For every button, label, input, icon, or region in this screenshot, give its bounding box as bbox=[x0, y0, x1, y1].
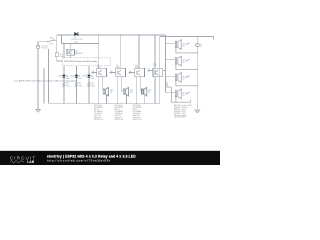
svg-text:JD-VCC 5V: JD-VCC 5V bbox=[94, 119, 104, 121]
transistor Q5 emitter wire bbox=[154, 77, 156, 103]
logo wave bbox=[10, 161, 24, 163]
wire gnd column b bbox=[48, 49, 50, 104]
footer bar bbox=[0, 151, 220, 165]
wire drop Q4 bbox=[138, 35, 140, 68]
transistor Q5 base wire bbox=[148, 70, 153, 72]
transistor Q3 base wire bbox=[110, 72, 116, 74]
wire battery top stub bbox=[38, 42, 47, 45]
ground G1 bbox=[36, 110, 40, 113]
transistor Q4 emitter wire bbox=[136, 77, 138, 103]
resistor R2 bbox=[75, 82, 78, 87]
relay RLY3 input wire bbox=[166, 75, 176, 77]
svg-text:ESP32 3.3V GPIO pin to control: ESP32 3.3V GPIO pin to control LED and r… bbox=[64, 60, 98, 63]
svg-text:LAB: LAB bbox=[27, 160, 34, 164]
wire bottom rail bbox=[49, 102, 160, 104]
diode D5 bbox=[74, 32, 78, 36]
svg-text:1k: 1k bbox=[148, 71, 150, 73]
svg-text:red: red bbox=[91, 77, 94, 80]
voltage source V2 stub bbox=[196, 37, 198, 44]
relay RLY3 bbox=[175, 72, 197, 86]
relay RLY4 bbox=[167, 82, 190, 103]
transistor Q2 bbox=[97, 68, 107, 77]
svg-text:Power: Power bbox=[42, 47, 48, 50]
transistor Q5 collector wire bbox=[163, 70, 166, 72]
voltage source V2 bbox=[196, 43, 200, 47]
value block 3 bbox=[133, 105, 143, 121]
voltage source V2 bottom stub bbox=[196, 47, 198, 53]
wire top rail bbox=[57, 34, 166, 36]
svg-text:JD-VCC jumper: JD-VCC jumper bbox=[174, 116, 186, 119]
wire LED column 3 bbox=[88, 66, 90, 104]
transistor Q1 pins bbox=[70, 44, 72, 58]
connector P1 bbox=[103, 89, 104, 94]
relay RLY1 bbox=[175, 39, 197, 53]
svg-text:Push: Push bbox=[49, 44, 53, 46]
LED1 bbox=[62, 75, 67, 78]
note box ESP32 bbox=[62, 58, 110, 66]
switch SW1 bbox=[55, 35, 57, 40]
svg-text:http://circuitlab.com/c/72vw3j: http://circuitlab.com/c/72vw3jbr93k bbox=[47, 158, 111, 162]
svg-text:330: 330 bbox=[91, 85, 94, 87]
wire horn feed 1 bbox=[102, 77, 105, 91]
connector P3 bbox=[142, 89, 143, 94]
svg-text:1k: 1k bbox=[129, 73, 131, 75]
transistor Q1 bbox=[67, 49, 75, 55]
wire right bus B bbox=[165, 35, 167, 93]
wire gate rail bbox=[61, 35, 98, 44]
voltage source V3 bbox=[36, 45, 39, 48]
svg-text:LED2: LED2 bbox=[70, 76, 75, 78]
svg-text:1k: 1k bbox=[92, 73, 94, 75]
relay RLY2 input wire bbox=[166, 59, 176, 61]
wire horn feed 2 bbox=[122, 77, 124, 91]
wire drop Q5 bbox=[154, 35, 156, 68]
svg-text:330: 330 bbox=[79, 85, 82, 87]
wire LED column 2 bbox=[75, 66, 77, 104]
wire right output bus bbox=[196, 53, 198, 110]
fuse F1 bbox=[55, 53, 58, 57]
transistor Q2 base wire bbox=[92, 72, 97, 74]
value block 2 bbox=[115, 105, 125, 121]
svg-text:JD-VCC 5V: JD-VCC 5V bbox=[115, 119, 125, 121]
wire horn feed 3 bbox=[140, 77, 143, 91]
transistor Q5 bbox=[153, 68, 163, 77]
svg-text:red: red bbox=[79, 77, 82, 80]
texts bbox=[14, 37, 203, 97]
resistor R3 bbox=[88, 82, 91, 87]
resistor R1 bbox=[63, 82, 66, 87]
relay RLY4 input wire bbox=[166, 92, 176, 94]
svg-text:Q4: Q4 bbox=[135, 65, 137, 67]
wire drop Q3 bbox=[119, 35, 121, 68]
svg-text:1N4001GP: 1N4001GP bbox=[71, 39, 83, 41]
wire battery minus down bbox=[37, 49, 39, 110]
svg-text:1k: 1k bbox=[110, 73, 112, 75]
junction dots bbox=[47, 35, 198, 104]
svg-text:Q3: Q3 bbox=[116, 65, 118, 67]
svg-text:uses ESP32 GPIO 3.3V output pi: uses ESP32 GPIO 3.3V output pin to drive… bbox=[14, 79, 78, 82]
value block 1 bbox=[94, 105, 104, 121]
transistor Q4 base wire bbox=[128, 72, 135, 74]
transistor Q2 emitter wire bbox=[98, 77, 100, 103]
svg-text:LED1: LED1 bbox=[58, 76, 63, 78]
relay RLY1 input wire bbox=[166, 42, 176, 44]
svg-text:SW1: SW1 bbox=[50, 38, 54, 40]
connector P2 bbox=[123, 89, 124, 94]
wire top right bbox=[160, 37, 214, 39]
relay RLY2 bbox=[175, 56, 197, 70]
fuse F1 wire bbox=[57, 40, 63, 61]
value block 4 bbox=[174, 104, 192, 119]
svg-text:Q5: Q5 bbox=[153, 63, 155, 65]
LED3 bbox=[87, 75, 93, 78]
wire LED column 1 bbox=[63, 44, 65, 104]
ground G2 bbox=[195, 110, 200, 113]
wire drop Q2 bbox=[98, 35, 100, 68]
svg-text:JD-VCC 5V: JD-VCC 5V bbox=[133, 119, 143, 121]
wire gnd column a bbox=[43, 68, 45, 103]
svg-text:Q2: Q2 bbox=[97, 65, 99, 67]
LED2 bbox=[75, 75, 81, 78]
transistor Q4 bbox=[135, 68, 145, 77]
transistor Q3 bbox=[116, 68, 126, 77]
transistor Q3 emitter wire bbox=[117, 77, 119, 103]
svg-text:AMS1117: AMS1117 bbox=[75, 52, 83, 55]
wire right bus A bbox=[159, 37, 161, 104]
svg-text:330: 330 bbox=[66, 85, 69, 87]
svg-text:LED3: LED3 bbox=[83, 76, 88, 78]
